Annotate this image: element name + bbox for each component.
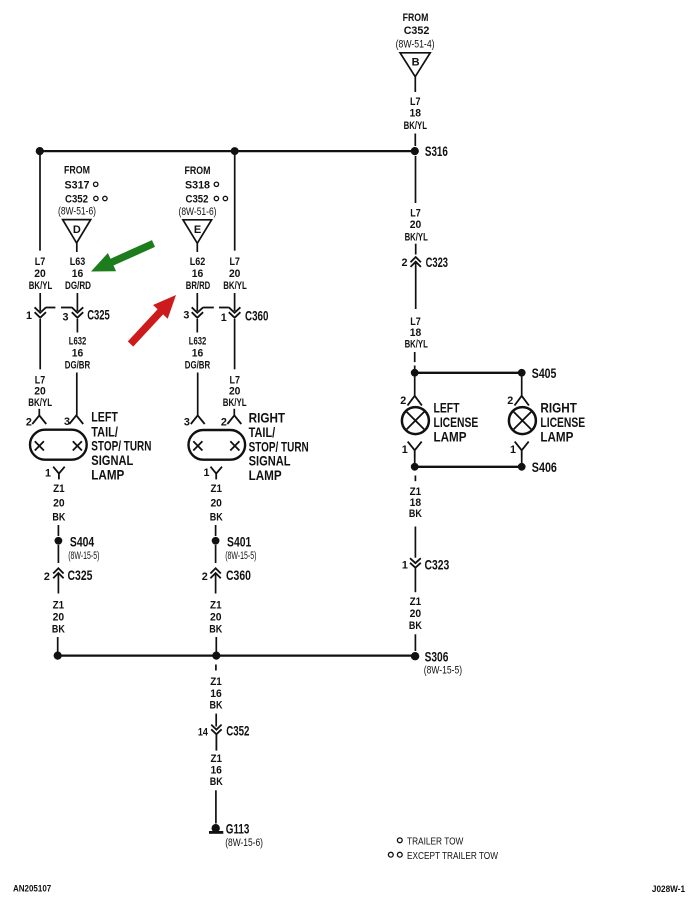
- legend trailer tow: [397, 836, 463, 847]
- svg-text:C360: C360: [226, 567, 251, 583]
- svg-text:(8W-15-5): (8W-15-5): [225, 550, 256, 562]
- right license lamp: [509, 400, 585, 445]
- top bus wire: [40, 150, 415, 152]
- svg-text:BK/YL: BK/YL: [404, 120, 428, 132]
- left license lamp pin 1: [402, 442, 422, 463]
- svg-text:(8W-51-6): (8W-51-6): [58, 205, 96, 217]
- svg-text:3: 3: [63, 312, 69, 324]
- connector C325 top: [26, 307, 110, 324]
- svg-text:LAMP: LAMP: [91, 467, 124, 483]
- footer AN205107: [13, 884, 51, 894]
- wire L7 below C360 pin 1: [223, 319, 247, 415]
- svg-text:3: 3: [184, 417, 190, 429]
- svg-text:S401: S401: [227, 533, 251, 549]
- svg-text:(8W-15-6): (8W-15-6): [225, 837, 263, 849]
- svg-text:20: 20: [34, 268, 46, 280]
- svg-text:3: 3: [64, 416, 70, 428]
- wire Z1 left lamp to S404: [52, 483, 65, 536]
- svg-text:3: 3: [183, 310, 189, 322]
- splice S404: [55, 533, 100, 563]
- svg-text:S405: S405: [532, 365, 557, 381]
- svg-text:16: 16: [72, 268, 84, 280]
- svg-text:2: 2: [44, 571, 50, 583]
- wire L7 below C325 pin 1: [28, 319, 52, 415]
- svg-text:LEFT: LEFT: [91, 409, 118, 425]
- svg-text:20: 20: [229, 268, 241, 280]
- svg-text:BR/RD: BR/RD: [186, 280, 211, 292]
- wire Z1 right lamp to S401: [210, 483, 223, 536]
- svg-text:BK: BK: [210, 699, 223, 711]
- svg-text:AN205107: AN205107: [13, 884, 51, 894]
- svg-text:S306: S306: [425, 648, 449, 664]
- footer J028W-1: [652, 884, 685, 894]
- svg-text:BK: BK: [409, 508, 422, 520]
- wire L7 C323 to node: [405, 316, 428, 369]
- wire S406 branch: [415, 466, 522, 468]
- svg-text:LAMP: LAMP: [540, 429, 573, 445]
- ground G113: [209, 820, 263, 849]
- svg-text:1: 1: [510, 444, 516, 456]
- connector C360 top: [183, 307, 268, 324]
- svg-text:BK: BK: [52, 624, 65, 636]
- svg-text:20: 20: [53, 497, 65, 509]
- svg-text:Z1: Z1: [210, 753, 222, 765]
- svg-text:16: 16: [210, 688, 222, 700]
- svg-text:2: 2: [26, 417, 32, 429]
- triangle B from C352: [396, 12, 435, 77]
- svg-text:G113: G113: [226, 820, 250, 836]
- triangle E from S318/C352: [179, 165, 228, 243]
- left tail lamp pin 1: [45, 467, 65, 480]
- svg-text:(8W-15-5): (8W-15-5): [424, 665, 462, 677]
- svg-text:16: 16: [192, 268, 204, 280]
- svg-text:DG/RD: DG/RD: [65, 280, 91, 292]
- svg-text:BK: BK: [210, 512, 223, 524]
- svg-text:L7: L7: [229, 256, 240, 268]
- svg-text:16: 16: [210, 765, 222, 777]
- wire Z1 to bottom bus left: [52, 599, 65, 652]
- svg-text:16: 16: [72, 348, 84, 360]
- svg-text:C352: C352: [65, 194, 88, 206]
- splice S406: [518, 459, 557, 475]
- svg-text:18: 18: [410, 327, 422, 339]
- svg-text:Z1: Z1: [53, 483, 65, 495]
- svg-text:L62: L62: [190, 256, 206, 268]
- splice S401: [212, 533, 257, 563]
- svg-text:BK/YL: BK/YL: [223, 397, 247, 409]
- svg-text:C352: C352: [226, 722, 249, 738]
- svg-text:DG/BR: DG/BR: [185, 360, 210, 372]
- svg-text:20: 20: [210, 497, 222, 509]
- svg-text:TRAILER TOW: TRAILER TOW: [407, 836, 464, 847]
- svg-text:L7: L7: [35, 256, 46, 268]
- svg-text:20: 20: [34, 386, 46, 398]
- svg-text:1: 1: [26, 310, 32, 322]
- svg-text:BK: BK: [409, 620, 422, 632]
- connector C323 pin 2: [402, 254, 449, 309]
- svg-text:D: D: [73, 224, 81, 236]
- svg-text:Z1: Z1: [53, 599, 65, 611]
- connector C325 pin 2: [44, 567, 93, 594]
- splice S306: [411, 648, 462, 676]
- svg-text:16: 16: [192, 348, 204, 360]
- left license lamp pin 2: [400, 377, 422, 407]
- wire Z1 C323 to S306: [409, 596, 422, 651]
- junction dot S406 left: [411, 463, 419, 471]
- svg-text:(8W-51-4): (8W-51-4): [396, 39, 435, 51]
- svg-text:1: 1: [402, 444, 408, 456]
- junction dot license feed: [411, 369, 419, 377]
- svg-text:1: 1: [221, 312, 227, 324]
- svg-text:BK/YL: BK/YL: [28, 397, 52, 409]
- right tail/stop/turn signal lamp: [189, 410, 309, 483]
- svg-text:C352: C352: [186, 194, 209, 206]
- svg-text:L7: L7: [410, 96, 421, 108]
- bottom bus wire: [58, 654, 415, 656]
- svg-text:FROM: FROM: [64, 164, 90, 176]
- svg-text:S404: S404: [70, 533, 94, 549]
- svg-text:BK/YL: BK/YL: [405, 339, 428, 351]
- wire L62 from triangle E: [186, 243, 211, 311]
- svg-text:BK/YL: BK/YL: [29, 280, 53, 292]
- svg-text:BK/YL: BK/YL: [223, 280, 247, 292]
- svg-text:BK: BK: [210, 776, 223, 788]
- svg-text:DG/BR: DG/BR: [65, 360, 90, 372]
- junction dot bus left: [54, 652, 62, 660]
- svg-text:20: 20: [229, 386, 241, 398]
- left tail/stop/turn signal lamp: [30, 409, 151, 483]
- connector C323 pin 1: [402, 557, 450, 593]
- svg-text:LAMP: LAMP: [249, 467, 282, 483]
- svg-text:FROM: FROM: [403, 12, 429, 24]
- wire B to S316: [404, 77, 428, 146]
- legend except trailer tow: [388, 851, 498, 862]
- svg-text:20: 20: [410, 219, 422, 231]
- svg-text:SIGNAL: SIGNAL: [91, 452, 133, 468]
- green arrow annotation: [91, 240, 155, 271]
- svg-text:L63: L63: [70, 256, 86, 268]
- svg-text:S406: S406: [532, 459, 557, 475]
- svg-text:S318: S318: [185, 179, 210, 191]
- wire Z1 below bus to C352: [210, 665, 223, 727]
- right license lamp pin 1: [510, 442, 529, 463]
- svg-text:C360: C360: [245, 308, 269, 324]
- svg-text:L7: L7: [410, 207, 421, 219]
- wire L632 below C360 pin 3: [185, 319, 210, 415]
- svg-text:2: 2: [202, 571, 208, 583]
- wire Z1 S406 to C323: [409, 476, 422, 558]
- svg-text:20: 20: [53, 612, 65, 624]
- left license lamp: [402, 400, 478, 445]
- junction dot bus mid: [212, 652, 220, 660]
- splice S405: [518, 365, 557, 381]
- wire L7 S316 to C323: [405, 156, 428, 255]
- junction dot mid: [231, 147, 239, 155]
- svg-text:1: 1: [45, 468, 51, 480]
- svg-text:Z1: Z1: [410, 596, 422, 608]
- splice S316: [411, 143, 448, 159]
- connector C360 pin 2: [202, 567, 251, 594]
- left tail lamp pin 2: [26, 415, 46, 428]
- svg-text:FROM: FROM: [185, 165, 211, 177]
- svg-text:S317: S317: [65, 179, 90, 191]
- svg-text:Z1: Z1: [210, 483, 222, 495]
- svg-text:L632: L632: [189, 336, 207, 348]
- svg-text:C323: C323: [425, 557, 450, 573]
- wire Z1 to bottom bus mid: [209, 599, 222, 652]
- wire to S405: [415, 372, 522, 374]
- junction dot left: [36, 147, 44, 155]
- svg-text:C323: C323: [426, 254, 449, 270]
- svg-text:BK: BK: [209, 624, 222, 636]
- wire L63 from triangle D: [65, 243, 91, 311]
- svg-text:BK: BK: [52, 512, 65, 524]
- svg-text:B: B: [412, 57, 420, 69]
- wire L632 below C325 pin 3: [65, 319, 90, 415]
- svg-text:2: 2: [402, 257, 408, 269]
- svg-text:S316: S316: [425, 143, 448, 159]
- svg-text:(8W-51-6): (8W-51-6): [179, 206, 217, 218]
- svg-text:C325: C325: [87, 307, 110, 323]
- svg-text:J028W-1: J028W-1: [652, 884, 685, 894]
- svg-text:2: 2: [400, 395, 406, 407]
- svg-text:1: 1: [402, 560, 408, 572]
- connector C352 pin 14: [198, 722, 250, 750]
- svg-text:1: 1: [204, 467, 210, 479]
- right license lamp pin 2: [507, 377, 529, 407]
- svg-text:E: E: [194, 224, 201, 236]
- triangle D from S317/C352: [58, 164, 107, 243]
- svg-text:BK/YL: BK/YL: [405, 231, 428, 243]
- wire right L7 column from bus: [223, 151, 247, 311]
- left tail lamp pin 3: [64, 415, 83, 428]
- svg-text:LAMP: LAMP: [434, 429, 467, 445]
- svg-text:(8W-15-5): (8W-15-5): [68, 550, 99, 562]
- svg-text:C325: C325: [68, 567, 93, 583]
- right tail lamp pin 1: [204, 467, 223, 480]
- svg-text:14: 14: [198, 727, 209, 739]
- wire Z1 C352 to G113: [210, 753, 223, 824]
- svg-text:20: 20: [210, 612, 222, 624]
- svg-text:2: 2: [221, 417, 227, 429]
- svg-text:18: 18: [410, 108, 422, 120]
- svg-text:L632: L632: [69, 336, 87, 348]
- right tail lamp pin 2: [221, 415, 241, 428]
- svg-text:EXCEPT TRAILER TOW: EXCEPT TRAILER TOW: [407, 851, 498, 862]
- svg-text:C352: C352: [404, 25, 430, 37]
- wire left column from bus: [29, 151, 53, 311]
- svg-text:Z1: Z1: [210, 599, 222, 611]
- svg-text:Z1: Z1: [210, 676, 222, 688]
- right tail lamp pin 3: [184, 415, 205, 428]
- red arrow annotation: [128, 295, 176, 347]
- svg-text:20: 20: [410, 608, 422, 620]
- svg-text:2: 2: [507, 395, 513, 407]
